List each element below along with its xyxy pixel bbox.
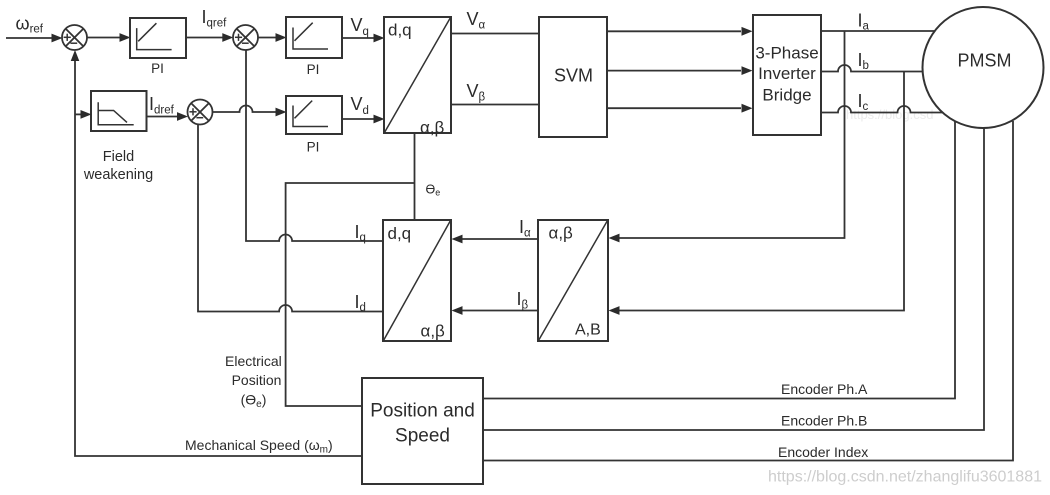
svg-text:Bridge: Bridge [762, 86, 811, 105]
wire Ib current tap down to Clarke block [609, 72, 905, 315]
svg-text:Inverter: Inverter [758, 64, 816, 83]
node PI1 label [151, 61, 164, 76]
wire inverter to PMSM (Ia) [821, 30, 935, 32]
wire PI1 to S2 (Iqref) [186, 33, 233, 42]
svg-text:Ɵe: Ɵe [426, 183, 441, 198]
wire inverter to PMSM (Ic) with hops at both taps [821, 106, 944, 112]
block position and speed estimator [362, 378, 483, 484]
wire inverter to PMSM (Ib) with hop at Ia tap [821, 65, 924, 72]
svg-text:Vq: Vq [351, 15, 369, 38]
node PI3 label [307, 140, 320, 155]
wire Id feedback from dq2 to S3 with hop over theta line [198, 125, 383, 312]
watermark [768, 469, 1042, 486]
wire omega_ref input [6, 34, 63, 43]
svg-text:Speed: Speed [395, 426, 450, 447]
summing junction S3 [188, 100, 213, 125]
node omega_ref label [16, 14, 44, 36]
svg-text:Ib: Ib [858, 50, 869, 72]
svg-text:Iβ: Iβ [517, 289, 529, 312]
svg-text:Iq: Iq [355, 222, 366, 244]
svg-text:α,β: α,β [420, 118, 445, 137]
wire theta_e vertical between dq1 and dq2 [414, 133, 416, 220]
node electrical position label [225, 353, 282, 410]
node Iqref label [202, 7, 228, 30]
wire Ia current tap down to Clarke block [609, 31, 845, 242]
svg-text:PMSM: PMSM [958, 51, 1012, 71]
svg-text:Id: Id [355, 292, 366, 314]
node Idref label [149, 94, 175, 117]
svg-text:SVM: SVM [554, 66, 593, 86]
wire branch into field weakening input [75, 110, 92, 119]
node Iq label [355, 222, 366, 244]
svg-text:Ic: Ic [858, 91, 869, 113]
svg-text:PI: PI [307, 62, 320, 77]
summing junction S2 [233, 25, 258, 50]
faint watermark fragment [846, 107, 933, 122]
block PI3 d-axis current controller [286, 96, 342, 134]
wire encoder index [483, 121, 1013, 461]
svg-text:Encoder Ph.B: Encoder Ph.B [781, 413, 867, 429]
wire theta_e branch to position block [286, 183, 415, 406]
svg-text:A,B: A,B [575, 321, 601, 338]
svg-text:d,q: d,q [388, 21, 412, 40]
svg-text:PI: PI [151, 61, 164, 76]
wire Clarke to dq2 (Ialpha) [452, 235, 539, 244]
node theta_e label [426, 183, 441, 198]
svg-text:α,β: α,β [549, 224, 574, 243]
wire encoder phase B [483, 128, 984, 430]
wire mechanical speed feedback to S1 and field weakening [71, 50, 362, 456]
node encoder index label [778, 444, 868, 460]
block field weakening [91, 91, 147, 131]
wire PI3 to dq1 (Vd) [342, 115, 385, 124]
block PI2 q-axis current controller [286, 17, 342, 58]
svg-text:Idref: Idref [149, 94, 175, 117]
wire encoder phase A [483, 121, 955, 399]
svg-text:α,β: α,β [421, 322, 446, 341]
wire S3 to PI3 with hop over S2 feedback [213, 106, 287, 117]
svg-text:PI: PI [307, 140, 320, 155]
wire SVM to inverter phase 3 [607, 104, 753, 113]
svg-text:d,q: d,q [388, 224, 412, 243]
node Ibeta label [517, 289, 529, 312]
wire S2 to PI2 [258, 33, 287, 42]
svg-text:Field: Field [103, 149, 134, 165]
node Vd label [351, 94, 369, 117]
svg-text:Iqref: Iqref [202, 7, 228, 30]
svg-text:Vd: Vd [351, 94, 369, 117]
svg-text:3-Phase: 3-Phase [755, 44, 818, 63]
block 3-phase inverter bridge [753, 15, 821, 135]
block PI1 speed controller [130, 18, 186, 58]
summing junction S1 [62, 25, 87, 50]
wire SVM to inverter phase 1 [607, 27, 753, 36]
node Valpha label [467, 9, 486, 32]
wire field weakening output Idref to S3 [147, 112, 189, 121]
node PI2 label [307, 62, 320, 77]
node Ia label [858, 10, 870, 32]
wire Iq feedback from dq2 to S2 with hop over theta line [246, 50, 383, 241]
node Vbeta label [467, 81, 486, 104]
svg-text:Position and: Position and [370, 401, 475, 422]
block PMSM motor [923, 7, 1044, 128]
svg-text:Vβ: Vβ [467, 81, 486, 104]
svg-text:Vα: Vα [467, 9, 486, 32]
node Vq label [351, 15, 369, 38]
wire S1 to PI1 [87, 33, 131, 42]
svg-text:Iα: Iα [519, 217, 531, 240]
wire PI2 to dq1 (Vq) [342, 34, 385, 43]
wire Clarke to dq2 (Ibeta) [452, 306, 539, 315]
svg-text:Encoder Ph.A: Encoder Ph.A [781, 381, 868, 397]
block dq1 inverse Park transform [384, 17, 451, 137]
svg-text:Ia: Ia [858, 10, 870, 32]
svg-text:Electrical: Electrical [225, 353, 282, 369]
svg-text:Position: Position [232, 372, 282, 388]
node mechanical speed label [185, 437, 333, 456]
node encoder phase B label [781, 413, 867, 429]
node Ib label [858, 50, 869, 72]
node Ic label [858, 91, 869, 113]
svg-text:(Ɵe): (Ɵe) [241, 392, 267, 411]
svg-text:ωref: ωref [16, 14, 44, 36]
block Clarke transform alpha-beta / A-B [538, 220, 608, 341]
node Id label [355, 292, 366, 314]
svg-text:Mechanical Speed (ωm): Mechanical Speed (ωm) [185, 437, 333, 456]
node field weakening label [83, 149, 153, 183]
svg-text:https://blog.csdn.net/zhanglif: https://blog.csdn.net/zhanglifu3601881 [768, 469, 1042, 486]
node encoder phase A label [781, 381, 868, 397]
svg-text:weakening: weakening [83, 167, 153, 183]
node Ialpha label [519, 217, 531, 240]
wire dq1 to SVM (Vbeta) [451, 104, 539, 106]
block dq2 Park transform [383, 220, 451, 341]
wire SVM to inverter phase 2 [607, 66, 753, 75]
block SVM [539, 17, 607, 137]
svg-text:Encoder Index: Encoder Index [778, 444, 868, 460]
wire dq1 to SVM (Valpha) [451, 33, 539, 35]
